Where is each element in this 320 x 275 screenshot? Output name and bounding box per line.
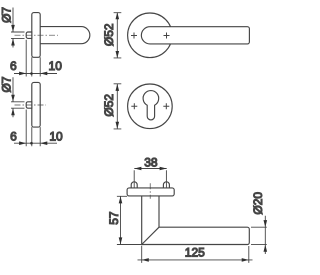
svg-text:Ø52: Ø52 — [102, 94, 116, 117]
screw mark right — [163, 103, 169, 109]
dim junction dot — [30, 72, 33, 75]
svg-text:125: 125 — [185, 245, 205, 259]
dim Ø52 arrows — [116, 84, 120, 129]
screw mark left — [131, 33, 137, 39]
dim 38 — [134, 168, 166, 170]
screw head left — [131, 182, 137, 188]
dim Ø7 arrows — [11, 25, 15, 46]
dim Ø52 arrows — [116, 12, 120, 58]
lever tube — [142, 227, 250, 244]
dim 38 arrows — [134, 167, 166, 171]
lever front — [141, 27, 249, 44]
dim 57 arrows — [119, 196, 123, 244]
svg-text:10: 10 — [49, 59, 63, 73]
rose rect — [32, 82, 40, 127]
euro profile cylinder hole — [143, 91, 159, 120]
svg-text:10: 10 — [49, 130, 63, 144]
dim Ø52 — [114, 13, 122, 58]
spindle stub — [26, 32, 32, 38]
centerline — [15, 34, 59, 36]
svg-text:6: 6 — [10, 59, 17, 73]
dim Ø7 arrows — [11, 95, 15, 116]
dim 57 — [117, 196, 142, 244]
screw mark right — [164, 33, 170, 39]
dim 6/10 line — [14, 40, 57, 77]
centerline — [15, 104, 47, 106]
screw head right — [163, 182, 169, 188]
dim Ø20 arrows — [264, 220, 268, 252]
dim Ø52 — [114, 84, 122, 129]
screw mark left — [131, 103, 137, 109]
dim 6/10 arrows — [19, 72, 47, 76]
rose plate — [127, 188, 174, 196]
dim Ø20 — [251, 216, 267, 254]
svg-text:57: 57 — [107, 211, 121, 225]
neck lines — [142, 196, 159, 245]
dim Ø7 leader lines — [11, 8, 25, 48]
svg-text:Ø20: Ø20 — [251, 192, 265, 215]
rose R (side view rect) — [32, 13, 40, 58]
vertical centerline — [149, 183, 151, 199]
screw axis lines — [134, 170, 166, 195]
dim junction dot — [30, 142, 33, 145]
svg-text:Ø7: Ø7 — [0, 7, 13, 23]
svg-text:Ø7: Ø7 — [0, 76, 13, 92]
svg-text:6: 6 — [10, 130, 17, 144]
dim 125 — [138, 246, 253, 263]
rose circle — [128, 84, 173, 129]
dim 6/10 line — [14, 110, 57, 147]
rose circle — [128, 13, 173, 58]
svg-text:38: 38 — [144, 156, 158, 170]
dim 125 arrows — [142, 258, 249, 262]
lever bar (side view) — [40, 27, 90, 44]
dim Ø7 leader lines — [11, 77, 25, 117]
miter joint — [142, 227, 159, 244]
dim 6/10 arrows — [19, 141, 47, 145]
svg-text:Ø52: Ø52 — [102, 23, 116, 46]
cylinder stub — [26, 102, 32, 108]
